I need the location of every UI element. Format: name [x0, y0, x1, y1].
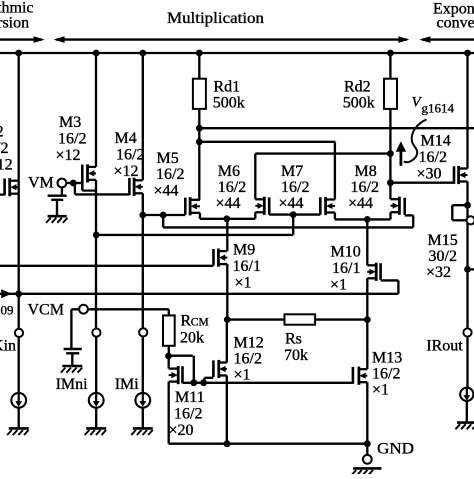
wire M5 source elbow	[199, 213, 201, 219]
label M12	[234, 335, 264, 384]
terminal IMi	[139, 328, 147, 336]
svg-text:Rd2: Rd2	[344, 78, 371, 95]
wire M14 source down	[466, 182, 468, 329]
resistor RCM 20k	[163, 313, 209, 347]
svg-text:M9: M9	[233, 241, 255, 258]
terminal IRout	[463, 328, 471, 336]
wire IKin to source	[18, 338, 20, 393]
svg-text:×44: ×44	[154, 183, 179, 200]
svg-text:16/1: 16/1	[233, 258, 261, 275]
svg-text:500k: 500k	[343, 94, 375, 111]
wire long gate line	[163, 226, 413, 228]
label GND	[377, 441, 414, 458]
svg-text:M10: M10	[331, 244, 361, 261]
node M14 source	[464, 202, 471, 209]
node GND-M12	[224, 440, 231, 447]
wire M10 source to M13 drain	[366, 278, 368, 369]
transistor M12 16/2 x1	[213, 360, 226, 378]
node rail-M4	[139, 50, 146, 57]
svg-text:g1614: g1614	[422, 101, 455, 116]
wire input line	[0, 293, 398, 295]
wire M8 gate lead	[405, 215, 414, 227]
svg-text:Multiplication: Multiplication	[167, 10, 264, 27]
svg-text:×30: ×30	[417, 166, 442, 183]
label VCM	[28, 301, 64, 318]
svg-text:×44: ×44	[216, 195, 241, 212]
svg-text:×12: ×12	[114, 163, 139, 180]
wire GND line	[169, 443, 368, 445]
wire M4 drain to rail	[142, 53, 144, 180]
svg-text:M11: M11	[175, 389, 205, 406]
resistor Rd2 500k	[343, 53, 397, 111]
svg-text:16/2: 16/2	[234, 351, 262, 368]
label M3	[56, 114, 87, 164]
transistor M7 16/2 x44	[320, 197, 335, 215]
svg-text:×20: ×20	[169, 422, 194, 439]
svg-text:×44: ×44	[348, 195, 373, 212]
wire gate line to M13	[194, 382, 353, 384]
svg-text:M14: M14	[421, 133, 451, 150]
node rail-M2	[15, 50, 22, 57]
svg-text:500k: 500k	[213, 94, 245, 111]
label M8	[348, 163, 379, 212]
wire M9 source down	[226, 264, 228, 320]
node gate line 2	[200, 379, 207, 386]
svg-text:16/2: 16/2	[419, 149, 447, 166]
wire M11 diode jog	[169, 356, 194, 383]
wire M7-M8 source line	[335, 218, 391, 220]
wire M8 source elbow	[389, 212, 391, 219]
transistor M8 16/2 x44	[391, 197, 405, 215]
node M3col-gateline	[93, 232, 100, 239]
svg-text:×1: ×1	[372, 382, 389, 399]
wire M11 drain elbow	[168, 356, 170, 369]
label M5	[154, 150, 185, 200]
wire IRout to source	[466, 337, 468, 388]
node rail-Rd1	[196, 50, 203, 57]
label M10	[330, 244, 361, 294]
node Rs right	[364, 316, 371, 323]
node rail-M3	[93, 50, 100, 57]
wire M10 gate lead	[381, 279, 399, 281]
label IKin (clipped)	[0, 338, 16, 355]
divider arrow multiplication	[54, 36, 410, 43]
node Rs left	[224, 316, 231, 323]
resistor Rd1 500k	[193, 53, 245, 111]
node Rd2-M6line	[387, 150, 394, 157]
svg-text:×1: ×1	[330, 277, 347, 294]
svg-text:M3: M3	[59, 114, 81, 131]
node GND terminal	[364, 440, 371, 447]
arrow input	[1, 289, 11, 298]
wire M6 drain up	[254, 154, 256, 200]
transistor M13 16/2 x1	[353, 367, 367, 385]
wire VCM elbow down	[168, 309, 170, 315]
ground VCM capacitor	[61, 366, 83, 373]
wire IMni to source	[95, 337, 97, 392]
svg-text:×1: ×1	[235, 274, 252, 291]
wire Rd2 to M8 drain	[389, 109, 391, 199]
divider arrow exponential	[419, 36, 474, 43]
arrow Vg1614 up	[396, 141, 406, 166]
transistor M3 16/2 x12	[82, 164, 96, 190]
label M4	[114, 130, 145, 180]
wire M12 drain up	[226, 320, 228, 363]
terminal VCM	[79, 305, 88, 314]
wire M6-M7 gate line	[269, 213, 320, 215]
svg-text:16/2: 16/2	[0, 140, 9, 157]
node RCM bottom	[165, 353, 172, 360]
label M9	[233, 241, 261, 291]
svg-text:16/2: 16/2	[174, 406, 202, 423]
wire jog to terminal	[452, 205, 467, 220]
wire IMi to source	[142, 337, 144, 392]
section label Exponential conversion	[433, 1, 474, 32]
ground VM capacitor	[46, 216, 67, 223]
label IRout	[426, 338, 463, 355]
wire VM to M4 gate	[75, 183, 129, 194]
capacitor VCM bypass	[64, 309, 82, 365]
wire M3 source down	[95, 180, 97, 328]
svg-text:16/2: 16/2	[156, 166, 184, 183]
svg-text:Rd1: Rd1	[213, 78, 240, 95]
wire gate tap down	[292, 215, 294, 235]
label M14	[417, 133, 451, 183]
wire M14 gate line	[390, 182, 454, 184]
label M13	[372, 350, 402, 399]
svg-text:M15: M15	[428, 232, 458, 249]
current source IMi	[135, 393, 150, 408]
transistor M6 16/2 x44	[255, 197, 269, 215]
svg-text:R: R	[180, 313, 191, 330]
wire M6 drain line to Rd2	[255, 152, 390, 154]
svg-text:M5: M5	[157, 150, 179, 167]
node input	[15, 290, 22, 297]
svg-text:16/1: 16/1	[332, 260, 360, 277]
wire M14 drain to rail	[466, 53, 468, 169]
wire M4 source to M5 gate	[143, 214, 186, 216]
svg-text:20k: 20k	[180, 330, 204, 347]
wire M4 source down	[142, 193, 144, 327]
wire M7 drain up to bus2	[334, 142, 336, 200]
capacitor VM bypass	[48, 188, 67, 215]
wire bus1 Rd1 to right edge	[199, 127, 474, 129]
transistor M5 16/2 x44	[185, 197, 200, 215]
wire GND stub	[366, 444, 368, 455]
svg-text:16/2: 16/2	[58, 131, 86, 148]
wire to ground 2	[95, 408, 97, 428]
wire Rd1 to M5 drain	[198, 109, 200, 200]
wire input up to M10 gate	[397, 280, 399, 293]
divider arrow logarithmic	[0, 36, 45, 43]
wire M10 drain up	[366, 219, 368, 265]
wire bus2 Rd1 to M7 drain	[199, 141, 335, 143]
wire VDD rail	[0, 52, 474, 54]
svg-text:VM: VM	[28, 174, 54, 191]
resistor Rs 70k	[284, 314, 315, 364]
label Vg1614	[412, 95, 455, 116]
label VM	[28, 174, 54, 191]
label Vg1609 (clipped)	[1, 302, 14, 317]
node gate-line tap	[160, 212, 167, 219]
svg-text:conversion: conversion	[0, 14, 29, 31]
svg-text:GND: GND	[377, 441, 414, 458]
svg-text:16/2: 16/2	[372, 366, 400, 383]
ground GND	[352, 468, 382, 475]
current source IMni	[89, 393, 104, 408]
svg-text:IMi: IMi	[115, 376, 140, 393]
ground 3	[131, 428, 153, 435]
label IMni	[56, 376, 89, 393]
wire tap down to long line	[162, 215, 164, 227]
terminal IKin	[15, 329, 23, 337]
svg-text:M2: M2	[0, 124, 4, 141]
wire VM to M3 gate	[67, 182, 82, 184]
svg-text:M8: M8	[355, 163, 377, 180]
wire M2 source down	[18, 181, 20, 328]
wire M7 source elbow	[334, 213, 336, 220]
label M11	[169, 389, 205, 439]
terminal GND	[363, 455, 372, 464]
svg-text:×32: ×32	[426, 264, 451, 281]
wire Rs to M10 column	[315, 318, 367, 320]
current source IRout	[460, 388, 473, 401]
svg-text:16/2: 16/2	[116, 147, 144, 164]
node rail-Rd2	[387, 50, 394, 57]
wire M3 drain to rail	[95, 53, 97, 167]
svg-text:M13: M13	[372, 350, 402, 367]
node Rd1-bus1	[196, 125, 203, 132]
wire M9 gate line	[0, 265, 214, 267]
node Rd2-M14gate	[387, 179, 394, 186]
transistor M2 (cut at edge)	[0, 178, 19, 196]
transistor M10 16/1 x1	[367, 263, 380, 281]
svg-text:conversion: conversion	[437, 15, 474, 32]
svg-text:M7: M7	[281, 163, 303, 180]
wire M6 source elbow	[254, 212, 256, 219]
wire to ground 1	[18, 408, 20, 428]
section label Logarithmic conversion	[0, 0, 34, 31]
wire M5-M6 source line	[200, 218, 255, 220]
label M6	[216, 163, 247, 212]
svg-text:×1: ×1	[234, 367, 251, 384]
transistor M9 16/1 x1	[214, 249, 228, 267]
wire M15 gate stub	[468, 268, 474, 270]
node M15 gate	[464, 266, 471, 273]
ground 1	[7, 428, 29, 435]
label IMi	[115, 376, 140, 393]
node source line to M10	[364, 216, 371, 223]
wire VCM to RCM	[89, 308, 169, 310]
terminal IMni	[92, 329, 100, 337]
svg-text:30/2: 30/2	[429, 248, 457, 265]
svg-text:16/2: 16/2	[281, 179, 309, 196]
svg-text:M6: M6	[218, 163, 240, 180]
svg-text:IRout: IRout	[426, 338, 463, 355]
wire M11 gate lead	[183, 382, 194, 384]
svg-text:M12: M12	[234, 335, 264, 352]
svg-text:IMni: IMni	[56, 376, 89, 393]
transistor M14 16/2 x30	[454, 166, 468, 184]
svg-text:16/2: 16/2	[351, 179, 379, 196]
wire RCM to M11	[168, 346, 170, 356]
wire M12 gate lead	[204, 378, 213, 383]
node gate line 1	[190, 379, 197, 386]
terminal VM	[58, 179, 67, 188]
node source line to M9	[223, 215, 230, 222]
label M7	[279, 163, 310, 212]
svg-text:16/2: 16/2	[218, 179, 246, 196]
section label Multiplication	[167, 10, 264, 27]
svg-text:×44: ×44	[279, 195, 304, 212]
ground 2	[85, 428, 107, 435]
node Rd1-bus2	[196, 138, 203, 145]
svg-text:Rs: Rs	[285, 331, 302, 348]
wire M9 source to Rs	[227, 318, 284, 320]
wire M2 drain to rail	[18, 53, 20, 181]
current source IKin	[11, 393, 26, 408]
node rail-M14	[464, 50, 471, 57]
wire to ground 3	[142, 408, 144, 428]
svg-text:09: 09	[1, 302, 14, 317]
ground IRout	[456, 423, 474, 430]
svg-text:M4: M4	[115, 130, 137, 147]
terminal mid right	[467, 216, 474, 224]
wire to ground IRout	[466, 401, 468, 423]
label M2 16/2 x12 (clipped)	[0, 124, 13, 174]
wire M13 source down	[366, 382, 368, 444]
wire M6M7-gate to M3 line	[96, 234, 293, 236]
transistor M4 16/2 x12	[129, 178, 142, 196]
transistor M11 16/2 x20	[169, 366, 183, 384]
svg-text:CM: CM	[191, 317, 209, 329]
wire M9 drain up	[226, 219, 228, 251]
wire M12 source down	[226, 376, 228, 444]
svg-text:70k: 70k	[284, 347, 308, 364]
node M6M7 gate tap	[290, 211, 297, 218]
label M15	[426, 232, 458, 281]
svg-text:IKin: IKin	[0, 338, 16, 355]
squiggle leader Vg1614	[404, 120, 427, 163]
svg-text:×12: ×12	[56, 147, 81, 164]
wire M11 source down	[168, 382, 170, 444]
node VM	[70, 180, 77, 187]
svg-text:×12: ×12	[0, 156, 13, 173]
svg-text:VCM: VCM	[28, 301, 64, 318]
node M4-gate-line	[139, 212, 146, 219]
